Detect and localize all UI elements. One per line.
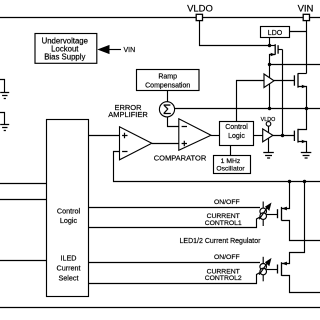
svg-text:VIN: VIN — [124, 47, 136, 54]
svg-text:CONTROL2: CONTROL2 — [205, 275, 242, 282]
wire source to FET1 gate — [266, 214, 277, 216]
svg-text:VLDO: VLDO — [261, 117, 276, 123]
ground (low-side FET) — [301, 153, 312, 159]
svg-text:ILED: ILED — [61, 254, 77, 263]
node LDO output junction 1 — [268, 44, 271, 47]
wire VLDO rail to right edge — [270, 64, 320, 66]
wire input line 2 — [0, 199, 47, 201]
node feedback rail junction 2 — [303, 180, 306, 183]
wire driver output to FET gate — [274, 80, 295, 82]
comparator — [179, 119, 211, 150]
box tall Control Logic / ILED Current Select — [47, 120, 89, 297]
svg-text:AMPLIFIER: AMPLIFIER — [108, 110, 148, 119]
svg-text:VIN: VIN — [298, 3, 314, 14]
wire control logic to error amp plus — [89, 135, 120, 137]
svg-text:Oscillator: Oscillator — [216, 165, 245, 172]
wire bottom rail — [0, 307, 320, 309]
transistor LED FET 2 — [277, 265, 279, 274]
wire LDO bottom to node — [269, 38, 271, 46]
current source 1 — [262, 202, 264, 227]
wire ON/OFF 2 — [89, 262, 261, 264]
svg-text:LDO: LDO — [268, 30, 283, 37]
wire error amp output to comparator plus — [152, 143, 179, 145]
wire VLDO terminal to low-side driver — [268, 126, 270, 132]
box UVLO Undervoltage Lockout Bias Supply — [35, 34, 97, 64]
wire VLDO pin down and right to LDO output node — [200, 21, 270, 46]
svg-text:ON/OFF: ON/OFF — [214, 199, 240, 206]
node feedback rail junction 1 — [288, 180, 291, 183]
svg-text:Logic: Logic — [60, 216, 78, 225]
wire driver ground — [268, 138, 270, 152]
wire driver bottom to SW line — [269, 84, 271, 109]
node LDO output junction 2 — [268, 63, 271, 66]
summing node sigma — [159, 102, 174, 117]
box Ramp Compensation — [137, 70, 200, 91]
svg-text:Bias Supply: Bias Supply — [44, 53, 85, 62]
svg-text:Compensation: Compensation — [145, 83, 190, 90]
svg-text:VLDO: VLDO — [187, 3, 213, 14]
svg-text:LED1/2 Current Regulator: LED1/2 Current Regulator — [180, 238, 262, 245]
box 1 MHz Oscillator — [214, 156, 251, 174]
ground (top-left second) — [0, 113, 5, 125]
node gate junction — [281, 134, 284, 137]
svg-text:Σ: Σ — [163, 102, 171, 117]
node SW junction left — [268, 107, 271, 110]
wire control logic top to high-side driver — [237, 81, 265, 122]
svg-text:CONTROL1: CONTROL1 — [205, 220, 242, 227]
svg-text:Logic: Logic — [228, 133, 245, 140]
wire VIN arrow into UVLO — [110, 49, 122, 51]
wire pass FET gate down to low-side gate line — [282, 50, 284, 136]
wire input line 1 — [0, 183, 47, 185]
wire ramp to sigma — [167, 91, 169, 102]
current source 2 — [262, 257, 264, 282]
wire control logic to low-side driver — [254, 135, 263, 137]
gate driver high-side — [264, 74, 274, 88]
wire sigma bottom to comparator minus — [168, 117, 179, 127]
node VIN pin — [303, 14, 309, 20]
wire error amp minus feedback down to current-sense rail — [114, 152, 320, 182]
wire source to FET2 gate — [266, 269, 277, 271]
op-amp error amplifier — [120, 127, 152, 160]
transistor LDO pass FET — [270, 45, 276, 47]
node SW junction right — [305, 107, 308, 110]
wire VIN pin down to pass FET drain — [306, 21, 308, 74]
ground (top-left first) — [0, 80, 5, 93]
box Control Logic (small) — [220, 122, 254, 146]
wire comparator output to control logic — [211, 135, 220, 137]
svg-text:1 MHz: 1 MHz — [221, 158, 241, 165]
svg-text:Control: Control — [225, 124, 248, 131]
svg-text:Select: Select — [59, 274, 79, 283]
transistor LED FET 1 — [277, 209, 279, 218]
wire CURRENT CONTROL1 — [89, 217, 261, 228]
wire SW sense line from sigma to right edge — [175, 108, 320, 110]
ground (driver) — [263, 153, 274, 159]
wire top rail — [0, 17, 320, 19]
svg-text:COMPARATOR: COMPARATOR — [154, 154, 207, 163]
wire ON/OFF 1 — [89, 207, 261, 209]
svg-text:ON/OFF: ON/OFF — [214, 254, 240, 261]
svg-text:Control: Control — [57, 207, 81, 216]
wire LDO input from VIN — [290, 31, 307, 33]
svg-text:Current: Current — [57, 263, 81, 272]
gate driver low-side — [263, 129, 273, 142]
svg-text:Ramp: Ramp — [158, 74, 177, 81]
node VLDO terminal circle — [266, 122, 271, 127]
wire driver output to low-side FET gate — [273, 135, 295, 137]
box LDO — [261, 27, 290, 38]
wire VLDO supply into high-side driver — [269, 65, 271, 79]
wire input line 3 — [0, 260, 47, 262]
transistor high-side NMOS — [293, 75, 295, 85]
wire CURRENT CONTROL2 — [89, 272, 261, 283]
transistor low-side NMOS — [298, 109, 307, 130]
node VLDO pin — [196, 14, 202, 20]
wire control logic to oscillator — [230, 146, 232, 157]
